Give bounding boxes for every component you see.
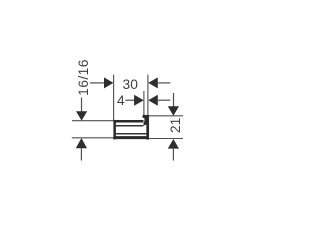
arrow 30 right-pointing — [104, 77, 113, 88]
profile right edge (wall side) — [146, 115, 149, 139]
extension line 30 left vertical — [113, 75, 115, 121]
dimension line 21 lower tail — [172, 149, 174, 161]
profile lip cap — [143, 115, 149, 118]
arrow 16/16 up — [76, 138, 87, 148]
arrow 30 left-pointing — [148, 77, 158, 88]
profile lip barb — [143, 121, 147, 126]
dimension line 21 upper tail — [173, 93, 175, 107]
arrow 16/16 down — [76, 111, 87, 120]
profile inner seam upper — [116, 125, 143, 127]
svg-text:16/16: 16/16 — [76, 59, 91, 96]
profile lip tongue — [144, 118, 146, 122]
dimension line 16/16 upper tail — [81, 98, 83, 113]
dimension line 4 left tail — [125, 99, 134, 101]
svg-text:21: 21 — [168, 118, 183, 133]
dimension line 30 right tail — [158, 82, 171, 84]
profile top edge — [113, 120, 143, 123]
arrow 4 left-pointing — [148, 95, 158, 106]
profile inner seam lower — [116, 133, 147, 135]
profile left edge — [113, 120, 116, 139]
svg-text:30: 30 — [123, 77, 139, 92]
arrow 21 up — [168, 139, 179, 149]
arrow 21 down — [168, 106, 179, 116]
extension line 30/4 right vertical — [147, 75, 149, 116]
extension line right bottom — [149, 138, 183, 140]
extension line left top — [72, 120, 114, 122]
extension line left bottom — [72, 137, 114, 139]
dimension line 16/16 lower tail — [80, 148, 82, 160]
svg-text:4: 4 — [117, 93, 125, 108]
dimension line 4 right tail — [158, 99, 171, 101]
arrow 4 right-pointing — [134, 95, 144, 106]
extension line right top (wall line) — [149, 115, 183, 117]
extension line 4 left vertical — [143, 91, 145, 115]
dimension line 30 left tail — [90, 82, 105, 84]
profile bottom edge — [113, 136, 149, 139]
